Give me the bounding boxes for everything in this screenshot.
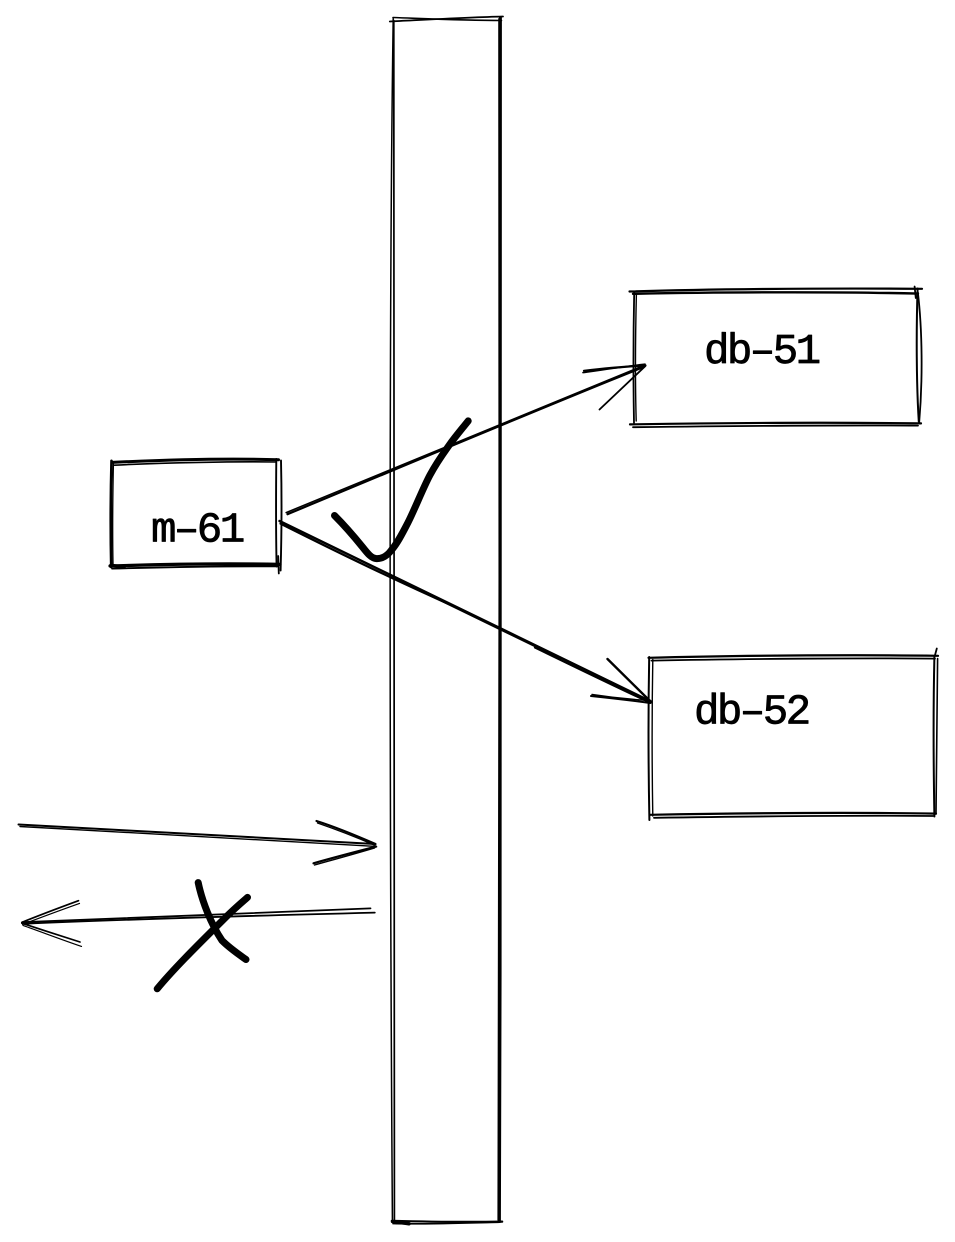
- box db-52: [649, 649, 939, 821]
- checkmark over db-51 arrow: [335, 421, 469, 559]
- label db-52: [694, 689, 809, 737]
- label m-61: [151, 507, 244, 555]
- arrow m-61 to db-51 head: [583, 364, 646, 409]
- svg-text:db–51: db–51: [704, 328, 820, 376]
- arrow left head: [22, 901, 82, 947]
- x mark over left arrow: [157, 883, 247, 989]
- arrow m-61 to db-52 shaft: [280, 521, 651, 703]
- label db-51: [704, 328, 820, 376]
- arrow left shaft: [23, 908, 375, 923]
- arrow m-61 to db-51 shaft: [286, 365, 645, 514]
- wall: [390, 17, 503, 1224]
- svg-text:db–52: db–52: [694, 689, 809, 737]
- box db-51: [630, 287, 923, 428]
- arrow right shaft: [19, 825, 376, 847]
- arrow right head: [314, 821, 377, 865]
- svg-text:m–61: m–61: [151, 507, 244, 555]
- arrow m-61 to db-52 head: [591, 659, 651, 703]
- box m-61: [110, 459, 281, 574]
